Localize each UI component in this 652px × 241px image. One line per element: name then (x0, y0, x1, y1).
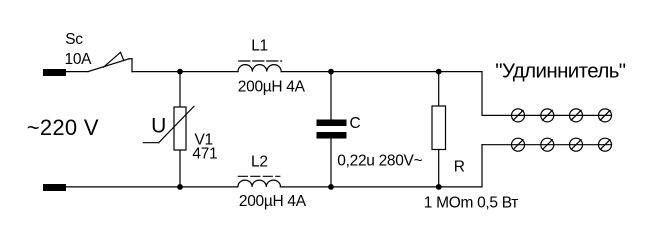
svg-text:Sc: Sc (65, 31, 83, 48)
svg-text:U: U (151, 114, 166, 137)
junction resistor top (436, 69, 442, 75)
svg-text:L1: L1 (251, 37, 268, 54)
socket 3 row 2 (570, 138, 583, 151)
svg-text:C: C (350, 115, 361, 132)
svg-text:~220 V: ~220 V (27, 115, 99, 140)
svg-text:0,22u 280V~: 0,22u 280V~ (337, 153, 422, 170)
svg-text:1 MOm 0,5 Вт: 1 MOm 0,5 Вт (424, 195, 518, 212)
bottom wire L2 to bottom-right corner (280, 186, 482, 188)
svg-text:10A: 10A (65, 51, 93, 68)
capacitor C lead top (330, 72, 332, 120)
varistor diagonal (159, 106, 194, 142)
circuit breaker Sc blade (88, 59, 129, 72)
circuit breaker tip stub (129, 58, 132, 60)
junction capacitor bottom (328, 184, 334, 190)
wire terminal to switch pivot (66, 71, 88, 73)
svg-text:200µH 4A: 200µH 4A (238, 79, 306, 96)
svg-text:"Удлиннитель": "Удлиннитель" (495, 59, 625, 82)
socket 1 row 1 (512, 109, 525, 122)
junction resistor bottom (436, 184, 442, 190)
svg-text:R: R (454, 159, 465, 176)
terminal bottom-left (43, 184, 66, 191)
socket 4 row 1 (599, 109, 612, 122)
svg-text:L2: L2 (251, 153, 268, 170)
varistor diagonal foot (143, 142, 158, 144)
inductor L1 arcs (238, 65, 281, 72)
socket 2 row 2 (541, 138, 554, 151)
inductor L1 core dashed line (239, 60, 282, 62)
socket 3 row 1 (570, 109, 583, 122)
wire switch to L1 (132, 71, 238, 73)
svg-text:200µH 4A: 200µH 4A (239, 193, 307, 210)
wire bottom-right corner up (481, 145, 483, 187)
wire top-right corner down (481, 72, 483, 116)
wire socket row 1 (482, 114, 612, 116)
capacitor C plate bottom (317, 132, 347, 139)
socket 4 row 2 (599, 138, 612, 151)
junction varistor bottom (177, 184, 183, 190)
resistor R lead top (438, 72, 440, 106)
wire L1 to top-right corner (281, 71, 482, 73)
circuit breaker flag closing edge (121, 52, 124, 60)
circuit breaker tip drop wire (131, 59, 133, 72)
junction varistor top (177, 69, 183, 75)
inductor L2 core dashed line (238, 175, 279, 177)
circuit breaker flag upper edge (104, 52, 121, 67)
varistor lead bottom (179, 150, 181, 187)
capacitor C lead bottom (330, 139, 332, 187)
wire socket row 2 (482, 144, 612, 146)
bottom wire terminal to L2 (66, 186, 238, 188)
inductor L2 arcs (238, 180, 281, 187)
terminal top-left (43, 69, 66, 76)
capacitor C plate top (317, 120, 347, 127)
resistor R body (432, 106, 446, 150)
resistor R lead bottom (438, 150, 440, 187)
varistor U lead top (179, 72, 181, 107)
svg-text:471: 471 (192, 146, 217, 163)
junction capacitor top (328, 69, 334, 75)
varistor U body (174, 107, 186, 150)
socket 2 row 1 (541, 109, 554, 122)
socket 1 row 2 (512, 138, 525, 151)
